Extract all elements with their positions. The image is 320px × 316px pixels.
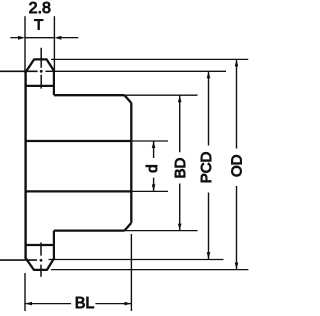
dimension line d — [153, 141, 155, 191]
crosshair dot top — [40, 70, 43, 73]
bore bottom line — [25, 190, 131, 192]
dimension line T — [25, 37, 54, 39]
pitch centerline left stub bottom — [0, 259, 37, 261]
pitch centerline left stub top — [0, 70, 38, 72]
tooth profile bottom — [25, 257, 54, 270]
crosshair dot bottom — [40, 259, 43, 262]
tooth root line bottom — [25, 244, 54, 246]
tooth centerline vertical top — [40, 48, 42, 89]
svg-text:d: d — [144, 164, 161, 172]
boss top edge — [54, 94, 125, 96]
arrow PCD down — [207, 252, 211, 259]
svg-text:2.8: 2.8 — [29, 0, 51, 17]
d extension line top — [131, 140, 168, 142]
boss bottom chamfer — [125, 223, 132, 231]
plate left edge — [24, 72, 26, 258]
tooth root line top — [25, 85, 54, 87]
svg-text:OD: OD — [228, 154, 245, 177]
BD extension line top — [125, 94, 198, 96]
OD extension line top — [51, 58, 248, 60]
bore top line — [25, 140, 131, 142]
dimension line PCD — [208, 71, 210, 259]
pitch extension line top right — [45, 70, 226, 72]
arrow BD down — [178, 224, 182, 231]
OD extension line bottom — [51, 269, 248, 271]
arrow T right — [54, 36, 78, 40]
arrow OD down — [235, 263, 239, 270]
svg-text:BL: BL — [75, 295, 95, 312]
arrow d down — [152, 184, 156, 191]
dimension line OD — [236, 59, 238, 269]
d extension line bottom — [131, 190, 168, 192]
svg-text:T: T — [34, 17, 43, 34]
arrow BL left — [25, 302, 32, 306]
extension line BL left — [24, 273, 26, 311]
pitch extension line bottom right — [49, 259, 224, 261]
arrow BD up — [178, 95, 182, 102]
svg-text:PCD: PCD — [198, 151, 215, 183]
dimension line BL — [25, 303, 131, 305]
extension line BL right — [130, 234, 132, 311]
extension line T left — [24, 16, 26, 73]
arrow T left — [10, 36, 25, 40]
boss top chamfer — [125, 95, 132, 103]
tooth profile top — [25, 59, 54, 73]
arrow d up — [152, 141, 156, 148]
dimension line BD — [179, 95, 181, 230]
arrow PCD up — [207, 71, 211, 78]
tooth centerline vertical bottom — [40, 243, 42, 277]
plate right edge lower — [53, 231, 55, 258]
extension line T right — [53, 16, 55, 72]
plate right edge upper — [53, 71, 55, 96]
boss bottom edge — [54, 229, 125, 231]
boss right edge — [130, 103, 132, 223]
BD extension line bottom — [125, 230, 198, 232]
arrow OD up — [235, 59, 239, 66]
svg-text:BD: BD — [172, 157, 189, 178]
arrow BL right — [124, 302, 131, 306]
